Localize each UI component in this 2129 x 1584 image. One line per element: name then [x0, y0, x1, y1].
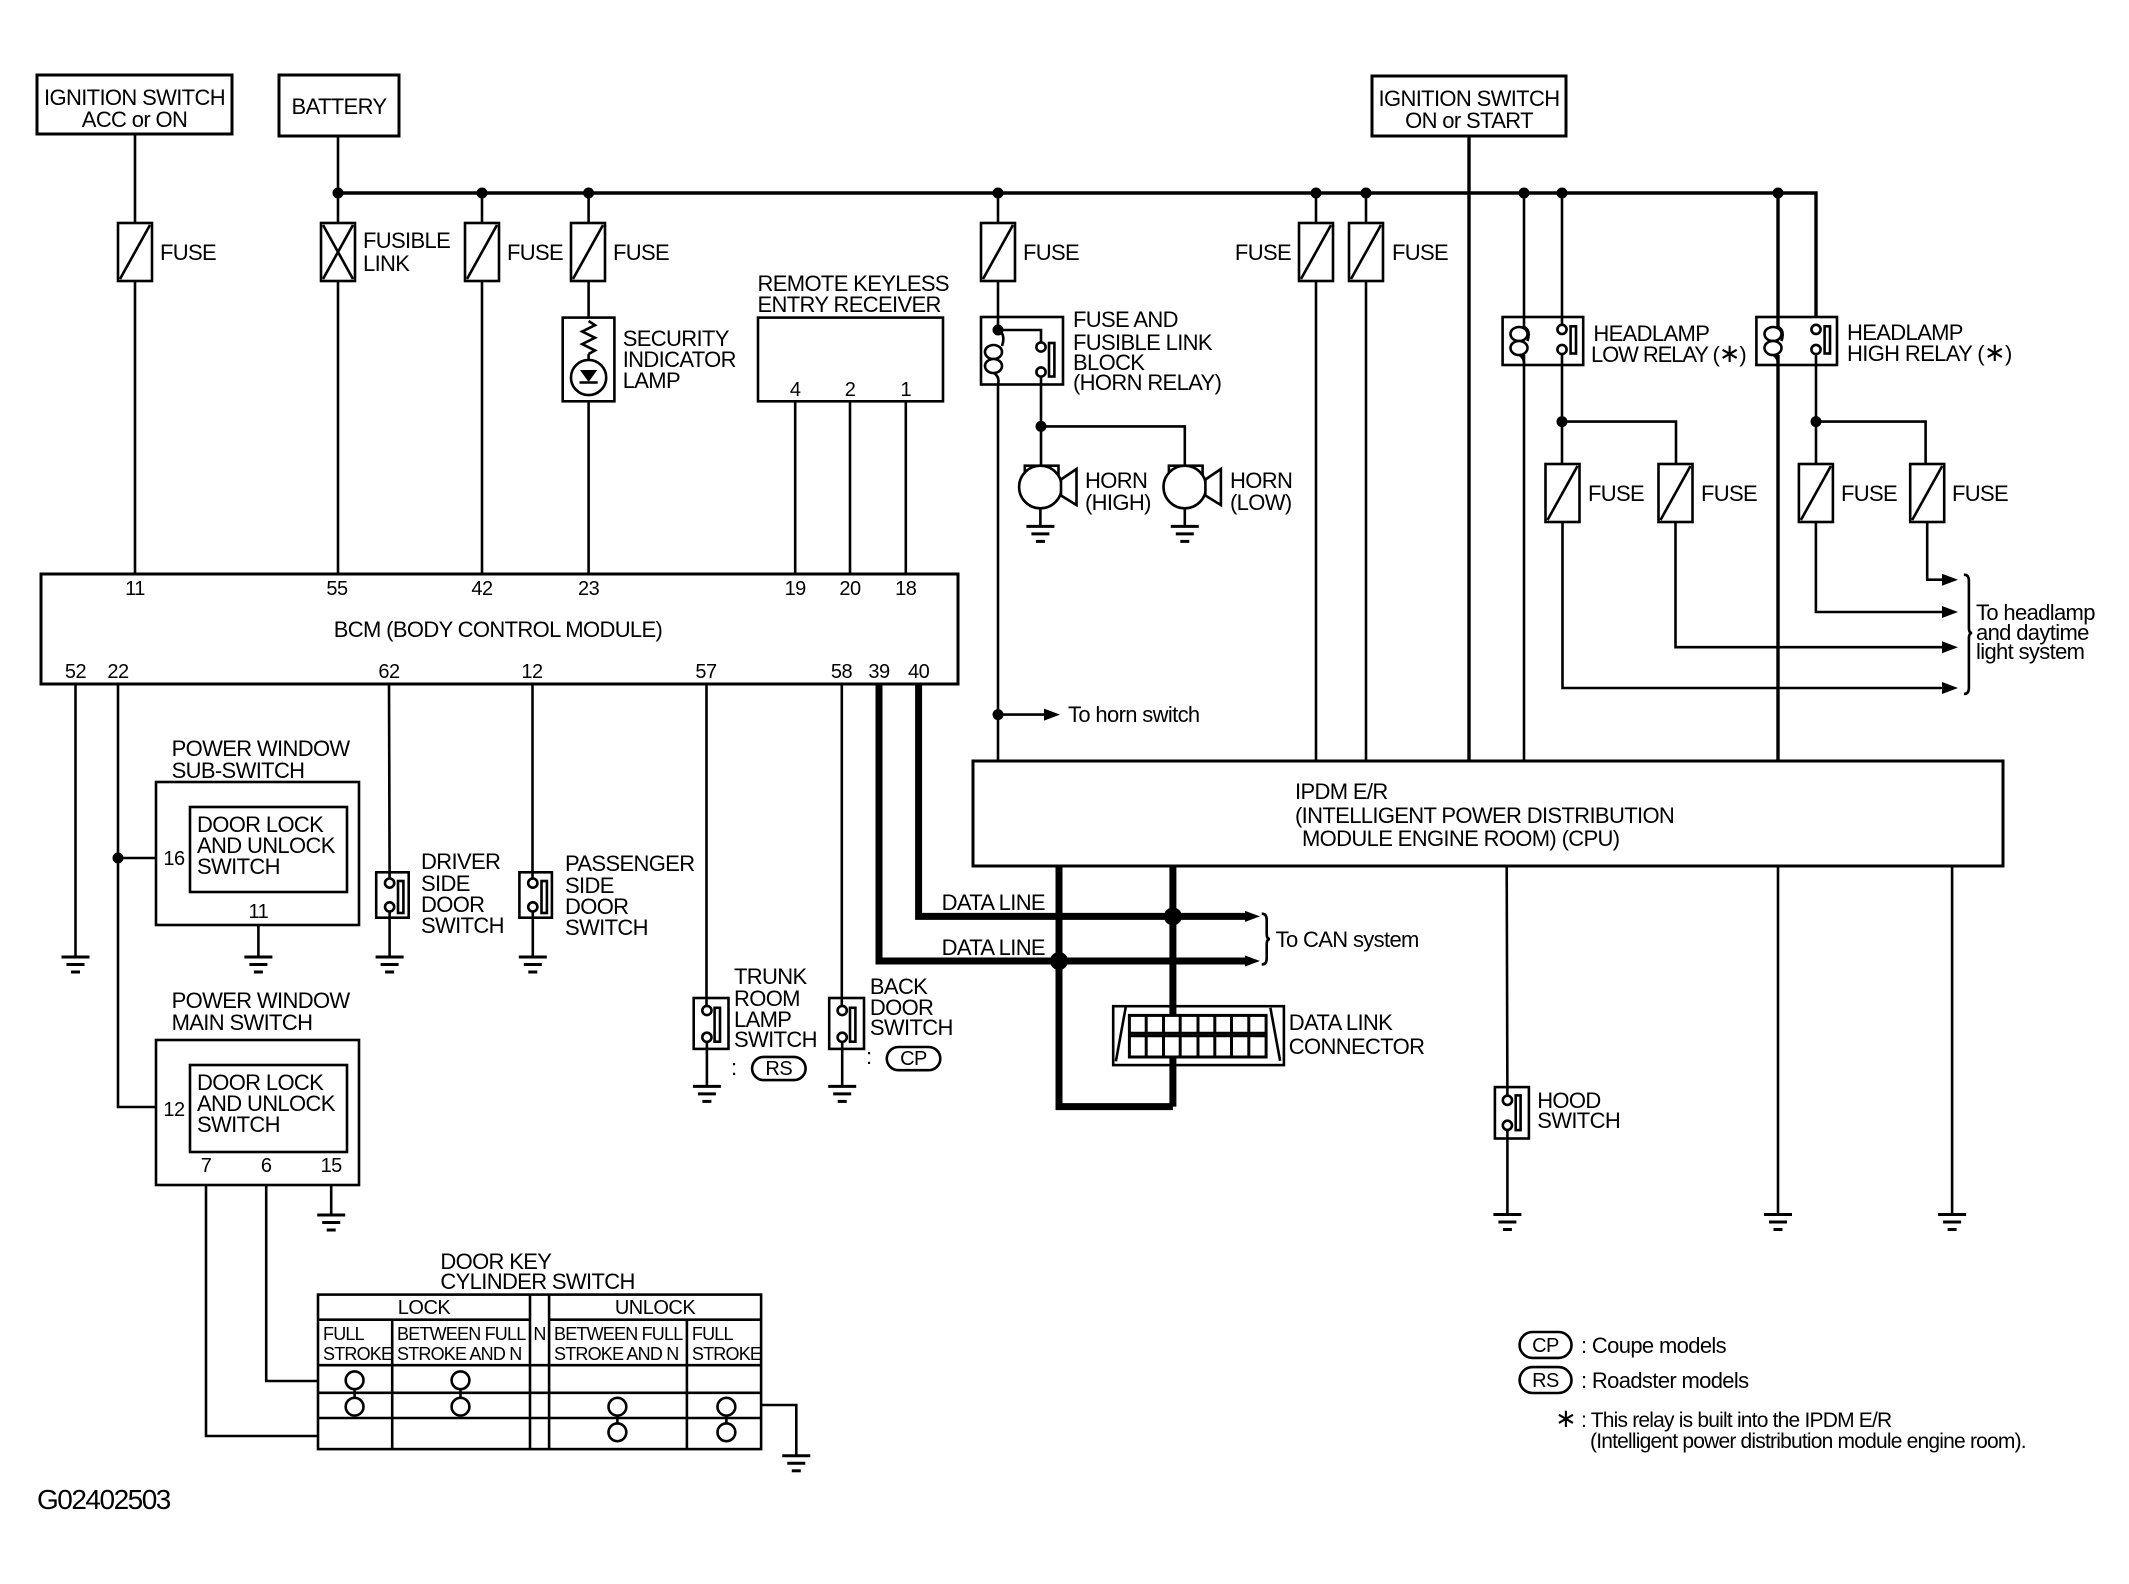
svg-text:62: 62 — [378, 661, 400, 683]
svg-text:DATA LINE: DATA LINE — [942, 890, 1045, 915]
svg-text:N: N — [533, 1324, 545, 1344]
svg-text:LINK: LINK — [363, 251, 410, 276]
svg-text:FUSE: FUSE — [507, 240, 563, 265]
svg-text:20: 20 — [839, 578, 861, 600]
svg-text:FUSE: FUSE — [1392, 240, 1448, 265]
svg-text:RS: RS — [765, 1058, 792, 1080]
svg-text:STROKE: STROKE — [323, 1344, 393, 1364]
svg-text:BETWEEN FULL: BETWEEN FULL — [397, 1324, 526, 1344]
svg-text:FULL: FULL — [692, 1324, 734, 1344]
svg-text:FUSE: FUSE — [1588, 481, 1644, 506]
svg-text:(Intelligent power distributio: (Intelligent power distribution module e… — [1590, 1430, 2026, 1453]
svg-text:SWITCH: SWITCH — [870, 1015, 953, 1040]
svg-text:ENTRY RECEIVER: ENTRY RECEIVER — [758, 292, 941, 317]
svg-text:light system: light system — [1976, 639, 2084, 664]
svg-text:IPDM E/R: IPDM E/R — [1295, 779, 1388, 804]
svg-text:LOCK: LOCK — [398, 1297, 452, 1319]
svg-text:FUSE: FUSE — [613, 240, 669, 265]
svg-text:CP: CP — [900, 1048, 927, 1070]
svg-text:SWITCH: SWITCH — [734, 1027, 817, 1052]
svg-text:42: 42 — [471, 578, 493, 600]
svg-text:STROKE AND N: STROKE AND N — [397, 1344, 521, 1364]
svg-text:(HIGH): (HIGH) — [1085, 490, 1151, 515]
svg-text:MODULE ENGINE ROOM) (CPU): MODULE ENGINE ROOM) (CPU) — [1302, 826, 1619, 851]
svg-text:STROKE AND N: STROKE AND N — [554, 1344, 678, 1364]
svg-text:40: 40 — [908, 661, 930, 683]
svg-text:SWITCH: SWITCH — [197, 1112, 280, 1137]
svg-text:MAIN SWITCH: MAIN SWITCH — [172, 1010, 313, 1035]
svg-text:UNLOCK: UNLOCK — [615, 1297, 697, 1319]
svg-text:2: 2 — [845, 379, 856, 401]
svg-text:(LOW): (LOW) — [1230, 490, 1292, 515]
svg-text:52: 52 — [65, 661, 87, 683]
svg-text:: Roadster models: : Roadster models — [1581, 1368, 1749, 1393]
svg-text:SWITCH: SWITCH — [1537, 1108, 1620, 1133]
svg-text:G02402503: G02402503 — [37, 1484, 171, 1515]
svg-text:SWITCH: SWITCH — [197, 854, 280, 879]
svg-text:ON or START: ON or START — [1405, 108, 1533, 133]
svg-text:DATA LINE: DATA LINE — [942, 935, 1045, 960]
svg-text:FUSE: FUSE — [1235, 240, 1291, 265]
svg-text:BATTERY: BATTERY — [292, 94, 388, 119]
svg-text:LOW RELAY (∗): LOW RELAY (∗) — [1591, 338, 1746, 368]
svg-text:FUSE: FUSE — [1701, 481, 1757, 506]
svg-text:STROKE: STROKE — [692, 1344, 762, 1364]
svg-text:FUSE AND: FUSE AND — [1073, 307, 1178, 332]
svg-text:4: 4 — [790, 379, 801, 401]
svg-text:: Coupe models: : Coupe models — [1581, 1333, 1727, 1358]
svg-text:FUSE: FUSE — [1023, 240, 1079, 265]
svg-text:FULL: FULL — [323, 1324, 365, 1344]
svg-text:6: 6 — [261, 1155, 272, 1177]
svg-text:DATA LINK: DATA LINK — [1289, 1010, 1393, 1035]
svg-text:LAMP: LAMP — [623, 368, 680, 393]
svg-text:15: 15 — [321, 1155, 343, 1177]
svg-text:FUSE: FUSE — [1841, 481, 1897, 506]
svg-text:BCM (BODY CONTROL MODULE): BCM (BODY CONTROL MODULE) — [334, 617, 662, 642]
svg-text:18: 18 — [895, 578, 917, 600]
svg-text:SUB-SWITCH: SUB-SWITCH — [172, 758, 305, 783]
svg-text:1: 1 — [900, 379, 911, 401]
svg-text:CONNECTOR: CONNECTOR — [1289, 1034, 1425, 1059]
svg-text:CP: CP — [1532, 1335, 1559, 1357]
svg-text:58: 58 — [831, 661, 853, 683]
svg-text:RS: RS — [1532, 1370, 1559, 1392]
svg-text:23: 23 — [578, 578, 600, 600]
svg-text:16: 16 — [163, 848, 185, 870]
svg-text:To CAN system: To CAN system — [1276, 927, 1419, 952]
svg-text:55: 55 — [326, 578, 348, 600]
svg-text:57: 57 — [695, 661, 717, 683]
svg-text::: : — [866, 1044, 871, 1069]
svg-text:22: 22 — [107, 661, 129, 683]
svg-text::: : — [731, 1055, 736, 1080]
svg-text:11: 11 — [249, 901, 269, 923]
svg-text:ACC or ON: ACC or ON — [82, 107, 187, 132]
svg-text:CYLINDER SWITCH: CYLINDER SWITCH — [440, 1269, 634, 1294]
svg-text:BETWEEN FULL: BETWEEN FULL — [554, 1324, 683, 1344]
svg-text:7: 7 — [201, 1155, 212, 1177]
svg-text:12: 12 — [521, 661, 543, 683]
svg-text:To horn switch: To horn switch — [1068, 702, 1200, 727]
svg-text:19: 19 — [785, 578, 807, 600]
svg-text:FUSE: FUSE — [1952, 481, 2008, 506]
svg-text:SWITCH: SWITCH — [565, 915, 648, 940]
svg-text:SWITCH: SWITCH — [421, 913, 504, 938]
svg-text:FUSIBLE: FUSIBLE — [363, 228, 450, 253]
svg-text:(INTELLIGENT POWER DISTRIBUTIO: (INTELLIGENT POWER DISTRIBUTION — [1295, 803, 1674, 828]
svg-text:FUSE: FUSE — [160, 240, 216, 265]
svg-text:HIGH RELAY (∗): HIGH RELAY (∗) — [1847, 337, 2012, 367]
svg-text:39: 39 — [868, 661, 890, 683]
svg-text:11: 11 — [125, 578, 145, 600]
svg-text:(HORN RELAY): (HORN RELAY) — [1073, 370, 1221, 395]
svg-text:12: 12 — [163, 1099, 185, 1121]
